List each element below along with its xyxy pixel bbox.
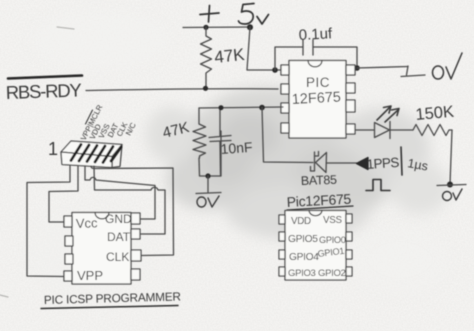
resistor R1 47K <box>201 27 212 88</box>
labels inside U2 <box>76 212 132 283</box>
net label RBS_RDY with overbar <box>5 76 82 103</box>
label +5v <box>200 4 269 25</box>
pinout title underline <box>287 206 353 210</box>
title underline <box>41 306 178 309</box>
wire LED to R3 <box>390 129 413 131</box>
svg-text:GPIO4: GPIO4 <box>289 252 319 263</box>
pin 1 U3 <box>279 215 285 224</box>
diode D1 BAT85 schottky <box>311 152 327 173</box>
pin 7 U1 <box>346 83 355 93</box>
labels U3 pin names <box>288 215 346 279</box>
label 1PPS <box>366 155 400 172</box>
svg-text:PIC: PIC <box>306 75 330 90</box>
svg-text:GPIO3: GPIO3 <box>288 268 316 279</box>
pin 2 U3 <box>279 232 285 241</box>
wire RC node to diode D1 <box>262 108 313 163</box>
svg-text:1PPS: 1PPS <box>366 155 400 172</box>
svg-text:1: 1 <box>48 139 58 159</box>
wire diode to 1PPS marker <box>327 162 358 164</box>
svg-text:Vcc: Vcc <box>76 215 99 231</box>
IC U3 pinout diagram body <box>285 211 346 281</box>
label 47K (R2) <box>161 119 191 142</box>
ground 0V middle stem and bar <box>196 176 221 194</box>
svg-text:BAT85: BAT85 <box>301 173 338 188</box>
label 150K <box>415 103 455 124</box>
ground tap 0V top right <box>401 66 425 77</box>
pin 8 U3 <box>346 214 352 223</box>
svg-text:0.1uf: 0.1uf <box>298 25 333 44</box>
label 0V top right <box>433 53 463 79</box>
svg-text:10nF: 10nF <box>220 139 253 157</box>
pin 1 U1 <box>281 65 289 75</box>
node junction diode branch <box>259 105 265 111</box>
wire hop bump on VSS vertical <box>154 186 156 187</box>
wire VDD from J1 to U2 Vcc <box>49 166 78 222</box>
node junction RC bottom <box>205 173 210 178</box>
pin 6 U1 <box>346 100 355 112</box>
wire +5V rail <box>183 26 252 29</box>
label 1us <box>406 156 429 173</box>
node junction +5V/R1 <box>203 25 208 30</box>
pulse waveform glyph <box>366 180 390 191</box>
pin 4 U3 <box>279 267 285 276</box>
connector J1 ICSP 3D body <box>61 141 122 168</box>
pin 3 U3 <box>279 250 285 259</box>
connector J1 pin labels rotated <box>79 103 138 142</box>
svg-text:VPP: VPP <box>77 268 103 283</box>
svg-text:CLK: CLK <box>106 250 129 264</box>
label divider stroke <box>401 147 402 175</box>
label BAT25 <box>301 173 338 188</box>
svg-text:GPIO5: GPIO5 <box>288 234 318 245</box>
svg-text:GPIO2: GPIO2 <box>318 268 346 279</box>
capacitor C2 10nF <box>209 108 231 176</box>
node junction C1 right / pin8 <box>354 65 360 71</box>
label 10nF <box>220 139 253 157</box>
wire R3 to bottom right ground <box>450 130 452 184</box>
pin 4 U1 <box>281 123 289 133</box>
LED D2 <box>375 122 391 139</box>
wire DAT from J1 to U2 DAT <box>94 166 165 234</box>
pin 2 left U2 <box>65 236 73 246</box>
wire VPP from J1 to U2 <box>27 166 70 277</box>
svg-text:RBS-RDY: RBS-RDY <box>5 79 81 103</box>
wire pin5 to LED <box>356 129 374 131</box>
pin VPP U2 <box>64 271 72 281</box>
node junction bottom right ground <box>447 182 453 188</box>
pin 4 right U2 <box>131 269 140 280</box>
pin 8 U1 <box>346 65 355 75</box>
pinout title Pic12F675 <box>286 191 351 210</box>
resistor R3 150K <box>413 125 452 136</box>
pin 6 U3 <box>346 250 352 259</box>
svg-text:GND: GND <box>105 212 132 226</box>
pin GND U2 <box>131 213 140 224</box>
resistor R2 47K <box>193 108 206 158</box>
svg-text:47K: 47K <box>213 45 246 67</box>
pin 3 left U2 <box>65 254 73 264</box>
svg-text:VDD: VDD <box>291 216 311 227</box>
label MCLR overbar <box>86 110 93 124</box>
svg-text:GPIO0: GPIO0 <box>319 235 346 245</box>
svg-text:150K: 150K <box>415 103 455 124</box>
svg-text:12F675: 12F675 <box>291 89 341 108</box>
label 0.1uf <box>298 25 333 44</box>
pin 2 U1 <box>281 84 289 94</box>
pin 7 U3 <box>346 232 352 241</box>
wire pin8 to 0V tap <box>357 67 408 69</box>
label PIC 12F675 inside U1 <box>291 75 341 108</box>
pin CLK U2 <box>131 250 141 261</box>
label 1PPS input marker arrow <box>357 158 369 170</box>
node junction R1/RBS_RDY <box>203 86 208 91</box>
node junction C1 left / pin1 <box>272 67 278 73</box>
pin DAT U2 <box>131 229 140 239</box>
title PIC ICSP PROGRAMMER <box>44 289 181 307</box>
pin 5 U1 <box>346 124 355 134</box>
IC U2 target socket body <box>72 213 131 285</box>
label pin 1 <box>48 139 58 159</box>
node junction C2 top <box>219 105 224 110</box>
connector J1 pin bars <box>71 145 121 163</box>
wire RC bottom rail <box>199 131 221 176</box>
capacitor C1 0.1uF <box>275 40 357 70</box>
wire RC top rail to pin3 <box>199 107 283 108</box>
wire +5V to pin1 of U1 <box>247 27 281 70</box>
svg-text:VSS: VSS <box>323 215 342 226</box>
pin 5 U3 <box>346 267 352 276</box>
wire VSS from J1 to U2 GND with hop <box>85 166 155 219</box>
wire RBS_RDY net <box>86 89 278 91</box>
svg-text:DAT: DAT <box>107 230 131 244</box>
label 0V bottom right <box>443 189 463 201</box>
ground 0V bottom right bar <box>437 185 466 186</box>
label 0V middle <box>197 196 219 207</box>
IC U1 PIC12F675 body <box>289 61 346 139</box>
label 47K (R1) <box>213 45 246 67</box>
wire CLK from J1 to U2 CLK <box>91 166 174 256</box>
pin 3 U1 <box>281 103 289 113</box>
pin Vcc U2 <box>64 216 72 227</box>
node junction +5V feed <box>247 24 253 30</box>
LED arrows <box>377 106 399 122</box>
